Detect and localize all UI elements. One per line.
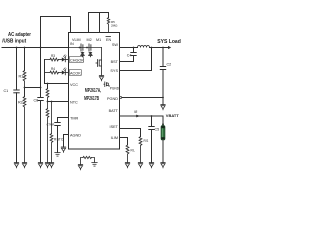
svg-text:R L: R L bbox=[131, 149, 136, 153]
svg-text:TMR: TMR bbox=[70, 117, 78, 121]
svg-text:C6: C6 bbox=[34, 99, 39, 103]
svg-text:ILIM: ILIM bbox=[111, 136, 118, 140]
svg-text:AC adapter: AC adapter bbox=[8, 32, 31, 38]
svg-text:CHGOK: CHGOK bbox=[70, 59, 84, 63]
svg-text:M1: M1 bbox=[96, 38, 101, 42]
svg-text:C1: C1 bbox=[4, 89, 9, 93]
svg-text:R4: R4 bbox=[51, 67, 55, 71]
svg-text:C5: C5 bbox=[155, 128, 160, 132]
svg-text:/USB input: /USB input bbox=[2, 39, 26, 45]
svg-text:2MΩ: 2MΩ bbox=[111, 24, 118, 28]
svg-text:MP2617B: MP2617B bbox=[84, 96, 99, 102]
svg-text:R NTC: R NTC bbox=[54, 138, 64, 142]
svg-text:PGND: PGND bbox=[107, 97, 118, 101]
svg-text:VBATT: VBATT bbox=[166, 113, 180, 118]
svg-text:SYS: SYS bbox=[110, 69, 118, 73]
svg-text:MP2617A,: MP2617A, bbox=[85, 88, 102, 94]
svg-text:C4: C4 bbox=[127, 53, 132, 57]
svg-text:R S: R S bbox=[144, 139, 149, 143]
svg-text:BST: BST bbox=[111, 60, 119, 64]
svg-text:SW: SW bbox=[112, 43, 119, 47]
svg-text:CTMR: CTMR bbox=[47, 122, 55, 126]
svg-text:NTC: NTC bbox=[70, 101, 78, 105]
svg-text:R2: R2 bbox=[18, 101, 23, 105]
svg-text:SYS Load: SYS Load bbox=[157, 39, 181, 45]
svg-text:AGND: AGND bbox=[70, 134, 81, 138]
svg-text:BATT: BATT bbox=[109, 109, 119, 113]
svg-text:VCC: VCC bbox=[70, 83, 78, 87]
svg-text:R1: R1 bbox=[19, 75, 24, 79]
svg-text:PGND: PGND bbox=[110, 86, 120, 90]
svg-text:EN: EN bbox=[106, 38, 111, 42]
svg-text:M2: M2 bbox=[87, 38, 92, 42]
svg-text:ACOK: ACOK bbox=[70, 72, 81, 76]
svg-text:IN: IN bbox=[70, 42, 74, 46]
svg-text:C2: C2 bbox=[167, 63, 172, 67]
svg-text:ISET: ISET bbox=[110, 125, 119, 129]
svg-text:R3: R3 bbox=[51, 54, 55, 58]
